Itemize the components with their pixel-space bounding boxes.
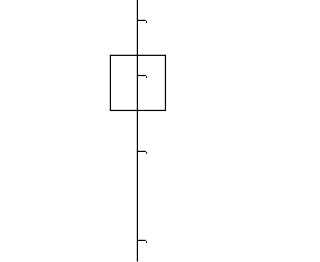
transition tick T1 [137,20,147,23]
step box S1 [110,55,165,110]
transition tick T4 [137,240,147,243]
transition tick T2 [137,76,147,79]
transition tick T3 [137,151,147,154]
wire: main vertical rail [136,0,138,262]
